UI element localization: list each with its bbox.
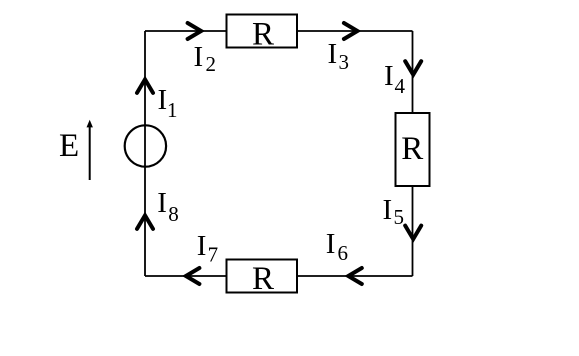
svg-text:7: 7 bbox=[208, 243, 219, 267]
EMF direction arrow E bbox=[87, 120, 93, 180]
svg-text:I: I bbox=[383, 194, 393, 226]
current arrow I7 (left, bottom wire) bbox=[186, 268, 200, 284]
label I5 bbox=[383, 194, 405, 229]
current arrow I2 (right, top wire) bbox=[188, 23, 202, 39]
wire right bbox=[412, 31, 414, 276]
svg-text:2: 2 bbox=[206, 52, 217, 76]
svg-text:E: E bbox=[59, 128, 79, 164]
svg-text:3: 3 bbox=[339, 50, 350, 74]
svg-text:I: I bbox=[384, 60, 394, 92]
svg-text:I: I bbox=[194, 41, 204, 73]
svg-text:6: 6 bbox=[338, 241, 349, 265]
wire left bbox=[144, 31, 146, 276]
current arrow I3 (right, top wire) bbox=[344, 23, 358, 39]
wire bottom bbox=[145, 275, 413, 277]
svg-text:8: 8 bbox=[168, 202, 179, 226]
current arrow I5 (down, right wire) bbox=[405, 226, 421, 240]
voltage source E (circle) bbox=[125, 125, 166, 166]
current arrow I6 (left, bottom wire) bbox=[348, 268, 362, 284]
wire top bbox=[145, 30, 413, 32]
svg-text:I: I bbox=[158, 84, 168, 116]
svg-text:I: I bbox=[328, 38, 338, 70]
svg-text:5: 5 bbox=[394, 205, 405, 229]
label I3 bbox=[328, 38, 350, 74]
label I1 bbox=[158, 84, 178, 122]
resistor R2 (right) bbox=[396, 113, 430, 186]
current arrow I8 (up, left wire) bbox=[137, 215, 153, 229]
current arrow I4 (down, right wire) bbox=[405, 61, 421, 74]
svg-text:4: 4 bbox=[395, 74, 406, 98]
label I7 bbox=[197, 230, 218, 267]
label I6 bbox=[326, 228, 348, 265]
svg-text:R: R bbox=[401, 131, 423, 167]
svg-text:1: 1 bbox=[167, 98, 178, 122]
label I8 bbox=[157, 187, 179, 226]
label I4 bbox=[384, 60, 406, 98]
svg-text:I: I bbox=[157, 187, 167, 219]
resistor R1 (top) bbox=[227, 15, 298, 53]
svg-text:I: I bbox=[197, 230, 207, 262]
current arrow I1 (up, left wire) bbox=[137, 79, 153, 93]
svg-text:R: R bbox=[252, 16, 274, 52]
label I2 bbox=[194, 41, 217, 76]
svg-text:R: R bbox=[252, 261, 274, 297]
resistor R3 (bottom) bbox=[227, 260, 298, 298]
svg-text:I: I bbox=[326, 228, 336, 260]
